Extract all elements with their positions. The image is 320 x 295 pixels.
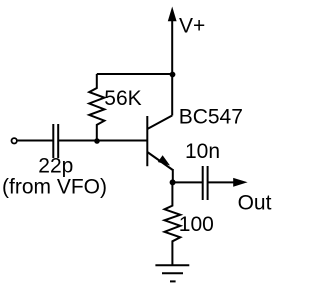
transistor Q1 BC547 bbox=[147, 116, 173, 171]
wire: emitter down to output node bbox=[172, 169, 174, 182]
wire: top rail from 56K to V+ rail bbox=[97, 73, 173, 75]
svg-text:22p: 22p bbox=[38, 155, 73, 178]
capacitor 10n bbox=[203, 166, 208, 200]
svg-text:100: 100 bbox=[179, 213, 214, 236]
resistor 56K bbox=[89, 74, 104, 141]
wire: C 22p to transistor base bbox=[58, 140, 146, 142]
wire: node to C 10n bbox=[173, 181, 203, 183]
wire: input terminal to C 22p bbox=[18, 140, 54, 142]
junction: base node / 56K bottom bbox=[94, 138, 100, 144]
svg-text:V+: V+ bbox=[179, 15, 205, 38]
svg-text:(from VFO): (from VFO) bbox=[2, 176, 107, 199]
input terminal (from VFO) bbox=[12, 138, 17, 143]
resistor 100 bbox=[165, 182, 181, 265]
wire: V+ rail down to collector corner bbox=[171, 75, 173, 116]
capacitor 22p bbox=[53, 124, 58, 158]
wire: C 10n to Out arrow bbox=[208, 178, 248, 187]
junction: emitter / output node bbox=[170, 179, 176, 185]
power V+ arrow bbox=[168, 7, 177, 75]
ground bbox=[155, 265, 189, 281]
junction: V+ rail / 56K top bbox=[170, 72, 176, 78]
svg-text:10n: 10n bbox=[185, 140, 220, 163]
svg-text:Out: Out bbox=[238, 192, 272, 215]
svg-text:56K: 56K bbox=[104, 87, 141, 110]
svg-text:BC547: BC547 bbox=[179, 106, 243, 129]
